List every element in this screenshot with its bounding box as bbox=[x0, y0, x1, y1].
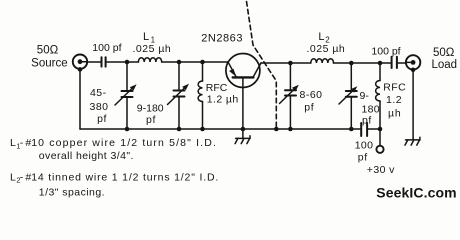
capacitor C7 100pf bypass bbox=[361, 123, 367, 136]
svg-text:RFC: RFC bbox=[206, 82, 228, 94]
svg-text:100 pf: 100 pf bbox=[371, 46, 400, 58]
node top of 9-180 bbox=[177, 60, 182, 65]
variable capacitor C2 45-380 pf bbox=[115, 62, 137, 129]
svg-text:100: 100 bbox=[355, 140, 373, 152]
svg-text:pf: pf bbox=[97, 113, 107, 125]
svg-text:pf: pf bbox=[358, 152, 368, 164]
note L1 winding bbox=[10, 137, 217, 162]
node shield to ground rail bbox=[274, 127, 279, 132]
variable capacitor C5 9-180 pf right bbox=[339, 63, 357, 129]
svg-text:2N2863: 2N2863 bbox=[201, 33, 243, 45]
node top of RFC1 bbox=[200, 60, 205, 65]
terminal +30v bbox=[376, 146, 383, 153]
shield dashed line bbox=[247, 2, 277, 130]
wire source drop bbox=[79, 69, 81, 129]
svg-text:50Ω: 50Ω bbox=[37, 45, 59, 57]
svg-text:.025 µh: .025 µh bbox=[307, 43, 346, 55]
ground rail bbox=[80, 128, 360, 130]
svg-text:1.2 µh: 1.2 µh bbox=[207, 93, 239, 105]
svg-text:1/3" spacing.: 1/3" spacing. bbox=[39, 186, 105, 198]
svg-text:100 pf: 100 pf bbox=[92, 42, 121, 54]
wire L2 to C6 bbox=[334, 62, 392, 64]
svg-text:+30 v: +30 v bbox=[367, 164, 395, 176]
ground under load bbox=[405, 137, 420, 145]
capacitor C1 100pf bbox=[102, 57, 106, 66]
wire C6 to load bbox=[398, 62, 406, 64]
label 9-180 pf right bbox=[360, 90, 380, 126]
label 50 ohm Load bbox=[432, 47, 458, 71]
node top of 8-60 bbox=[288, 61, 293, 66]
node rail RFC1 bbox=[200, 127, 205, 132]
svg-text:L: L bbox=[143, 31, 149, 43]
variable capacitor C3 9-180 pf bbox=[168, 62, 190, 129]
svg-text:L: L bbox=[10, 137, 16, 149]
svg-text:50Ω: 50Ω bbox=[433, 47, 455, 59]
RF choke RFC1 1.2uh bbox=[198, 62, 202, 129]
svg-text:pf: pf bbox=[146, 114, 156, 126]
label 100 pf bypass bbox=[355, 140, 373, 164]
svg-text:L: L bbox=[10, 171, 16, 183]
node top of RFC2 bbox=[378, 61, 383, 66]
svg-text:Load: Load bbox=[432, 59, 458, 71]
label RFC 1.2 uh bbox=[206, 82, 239, 105]
node rail 45-380 bbox=[125, 127, 130, 132]
wire load to ground bbox=[412, 70, 414, 140]
wire source to C1 bbox=[87, 61, 101, 63]
base lead of Q1 bbox=[242, 77, 244, 129]
svg-text:SeekIC.com: SeekIC.com bbox=[376, 185, 456, 201]
svg-text:9-180: 9-180 bbox=[137, 103, 164, 115]
svg-text:45-: 45- bbox=[90, 87, 107, 99]
wire L1 to Q1 emitter bbox=[162, 61, 229, 63]
label 8-60 pf bbox=[300, 89, 323, 113]
RF choke RFC2 1.2uh bbox=[376, 63, 380, 129]
svg-text:Source: Source bbox=[31, 57, 67, 69]
node rail base bbox=[241, 127, 246, 132]
node rail RFC2 bbox=[378, 127, 383, 132]
load connector J2 bbox=[406, 55, 420, 72]
svg-text:10 copper wire 1/2 turn 5/8" I: 10 copper wire 1/2 turn 5/8" I.D. bbox=[31, 137, 217, 149]
svg-text:RFC: RFC bbox=[383, 82, 406, 94]
svg-text:8-60: 8-60 bbox=[300, 89, 323, 101]
capacitor C6 100pf output bbox=[392, 57, 397, 68]
wire collector to L2 bbox=[261, 62, 311, 64]
wire C1 to L1 bbox=[106, 61, 138, 63]
node rail 8-60 bbox=[288, 127, 293, 132]
svg-text:-: - bbox=[20, 137, 24, 149]
label 9-180 pf bbox=[137, 103, 164, 126]
label L1 bbox=[133, 31, 172, 55]
variable capacitor C4 8-60 pf bbox=[280, 63, 299, 129]
node top of 45-380 bbox=[125, 60, 130, 65]
label RFC 1.2 uh right bbox=[383, 82, 406, 120]
inductor L1 bbox=[138, 58, 161, 62]
node rail 9-180 right bbox=[349, 127, 354, 132]
svg-text:L: L bbox=[318, 31, 324, 43]
svg-text:9-: 9- bbox=[360, 90, 370, 102]
source connector J1 bbox=[73, 55, 87, 72]
svg-text:14 tinned wire 1 1/2 turns 1/2: 14 tinned wire 1 1/2 turns 1/2" I.D. bbox=[31, 171, 219, 183]
label 50 ohm Source bbox=[31, 45, 67, 70]
svg-text:-: - bbox=[20, 171, 24, 183]
wire C7 to RFC2 node bbox=[368, 128, 380, 130]
label L2 bbox=[307, 31, 346, 55]
svg-text:.025 µh: .025 µh bbox=[133, 43, 172, 55]
transistor Q1 2N2863 bbox=[226, 54, 261, 88]
svg-text:µh: µh bbox=[388, 107, 402, 119]
svg-text:pf: pf bbox=[304, 101, 314, 113]
node top of 9-180 right bbox=[349, 61, 354, 66]
node rail 9-180 bbox=[177, 127, 182, 132]
svg-text:1.2: 1.2 bbox=[386, 94, 402, 106]
inductor L2 bbox=[311, 59, 334, 63]
svg-text:overall height 3/4".: overall height 3/4". bbox=[39, 150, 134, 162]
label 45-380 pf bbox=[89, 87, 108, 125]
svg-text:380: 380 bbox=[89, 101, 108, 113]
note L2 winding bbox=[10, 171, 219, 198]
ground under base bbox=[235, 129, 250, 144]
wire to +30v terminal bbox=[379, 129, 381, 146]
